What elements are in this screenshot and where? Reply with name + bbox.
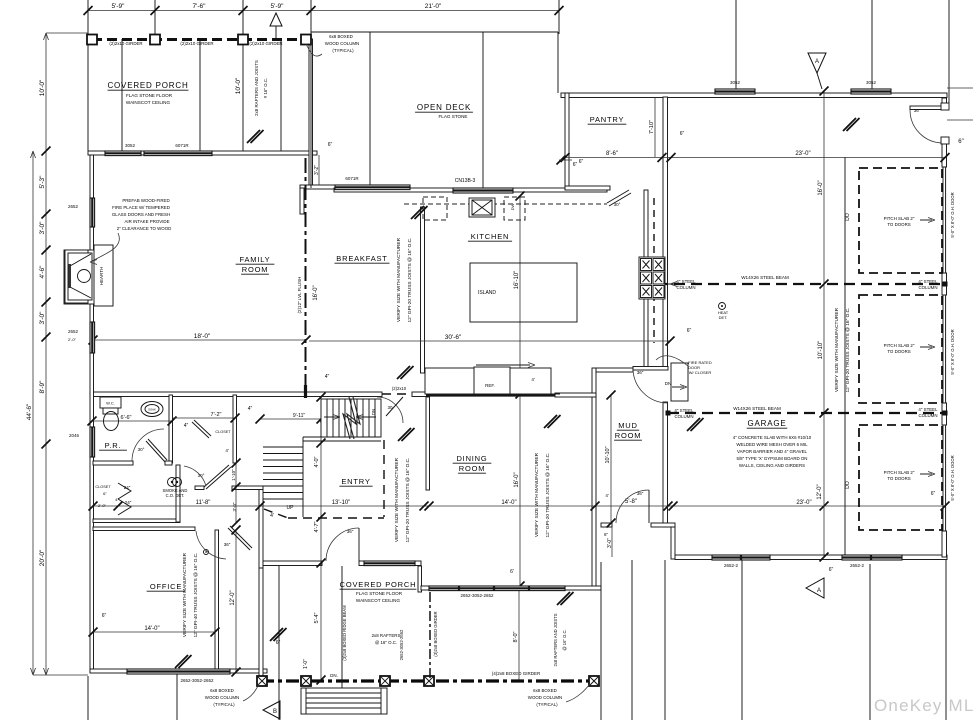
svg-text:(3)2x8 BOXED GIRDER: (3)2x8 BOXED GIRDER <box>433 611 438 656</box>
svg-text:2" CLEARANCE TO WOOD: 2" CLEARANCE TO WOOD <box>117 226 172 231</box>
svg-text:6": 6" <box>276 640 281 646</box>
svg-text:COLUMN: COLUMN <box>674 414 693 419</box>
svg-text:36": 36" <box>637 370 644 375</box>
svg-text:21'-0": 21'-0" <box>425 3 442 10</box>
svg-text:5'-9": 5'-9" <box>112 3 126 10</box>
svg-text:16'-0": 16'-0" <box>514 472 520 487</box>
svg-text:WOOD COLUMN: WOOD COLUMN <box>528 695 562 700</box>
svg-text:16'-10": 16'-10" <box>514 271 520 290</box>
svg-text:FAMILY: FAMILY <box>240 255 271 264</box>
svg-text:4': 4' <box>225 448 229 453</box>
svg-text:6': 6' <box>510 569 514 575</box>
svg-text:2x8 RAFTERS AND JOISTS: 2x8 RAFTERS AND JOISTS <box>553 613 558 666</box>
svg-text:4" STEEL: 4" STEEL <box>676 279 696 284</box>
svg-text:W.C.: W.C. <box>106 401 115 406</box>
svg-text:CN13B-3: CN13B-3 <box>455 178 476 184</box>
svg-text:6x8 BOXED: 6x8 BOXED <box>329 34 353 39</box>
svg-text:6": 6" <box>604 532 609 537</box>
svg-text:2652-2: 2652-2 <box>724 563 739 568</box>
svg-text:3'-0": 3'-0" <box>39 311 46 325</box>
svg-text:(TYPICAL): (TYPICAL) <box>536 702 558 707</box>
svg-text:COLUMN: COLUMN <box>676 285 695 290</box>
svg-text:DN.: DN. <box>330 673 338 678</box>
svg-text:36": 36" <box>347 529 354 534</box>
svg-text:36": 36" <box>637 491 644 496</box>
svg-text:4" STEEL: 4" STEEL <box>918 407 938 412</box>
svg-text:6'-6": 6'-6" <box>121 415 132 421</box>
svg-text:TO DOORS: TO DOORS <box>887 349 910 354</box>
svg-text:4': 4' <box>270 513 274 519</box>
svg-text:PITCH SLAB 2": PITCH SLAB 2" <box>884 216 915 221</box>
svg-text:ROOM: ROOM <box>242 265 269 274</box>
svg-text:3052: 3052 <box>730 80 741 85</box>
svg-text:TO DOORS: TO DOORS <box>887 222 910 227</box>
svg-text:(TYPICAL): (TYPICAL) <box>332 48 354 53</box>
svg-text:16'-0": 16'-0" <box>313 285 319 300</box>
svg-text:2'-0": 2'-0" <box>98 503 107 508</box>
svg-text:(2)2x10 GIRDER: (2)2x10 GIRDER <box>249 41 282 46</box>
svg-text:WOOD COLUMN: WOOD COLUMN <box>205 695 239 700</box>
svg-text:(2)2x10: (2)2x10 <box>392 386 407 391</box>
svg-text:2652-2: 2652-2 <box>850 563 865 568</box>
svg-text:30°: 30° <box>614 202 621 207</box>
svg-text:24": 24" <box>125 500 132 505</box>
svg-text:3'-0": 3'-0" <box>232 502 237 511</box>
svg-text:FLAG STONE FLOOR: FLAG STONE FLOOR <box>126 93 173 98</box>
svg-text:2'-0": 2'-0" <box>68 337 77 342</box>
svg-text:FIRE PLACE W/ TEMPERED: FIRE PLACE W/ TEMPERED <box>112 205 170 210</box>
svg-text:4" STEEL: 4" STEEL <box>918 279 938 284</box>
svg-text:PANTRY: PANTRY <box>590 115 625 124</box>
svg-text:DN: DN <box>665 381 672 386</box>
svg-text:5'-0" X 8'-0" O.H. DOOR: 5'-0" X 8'-0" O.H. DOOR <box>950 329 955 374</box>
svg-text:OFFICE: OFFICE <box>150 582 182 591</box>
svg-text:COLUMN: COLUMN <box>918 285 937 290</box>
svg-text:7'-6": 7'-6" <box>193 3 207 10</box>
svg-text:PITCH SLAB 2": PITCH SLAB 2" <box>884 470 915 475</box>
svg-text:2652-3052-2652: 2652-3052-2652 <box>399 629 404 660</box>
svg-text:(4)2x8 BOXED GIRDER: (4)2x8 BOXED GIRDER <box>492 671 541 676</box>
svg-text:4": 4" <box>325 374 330 380</box>
svg-text:11'-8": 11'-8" <box>196 500 211 506</box>
svg-text:BREAKFAST: BREAKFAST <box>336 254 387 263</box>
svg-text:30°: 30° <box>138 447 145 452</box>
svg-text:@ 16" O.C.: @ 16" O.C. <box>562 629 567 650</box>
svg-text:7'-2": 7'-2" <box>211 412 222 418</box>
svg-text:(TYPICAL): (TYPICAL) <box>213 702 235 707</box>
svg-text:10'-10": 10'-10" <box>818 341 824 360</box>
svg-text:2652-3052-2652: 2652-3052-2652 <box>180 678 214 683</box>
svg-text:1'-10": 1'-10" <box>231 469 236 481</box>
svg-text:18'-0": 18'-0" <box>194 333 211 340</box>
svg-text:3052: 3052 <box>125 143 136 148</box>
svg-text:12'-0": 12'-0" <box>230 590 236 605</box>
svg-text:PITCH SLAB 2": PITCH SLAB 2" <box>884 343 915 348</box>
svg-text:P.R.: P.R. <box>105 441 122 450</box>
svg-text:ENTRY: ENTRY <box>341 477 370 486</box>
svg-text:5'-4": 5'-4" <box>314 612 320 623</box>
svg-text:6": 6" <box>687 328 692 334</box>
svg-text:6071R: 6071R <box>175 143 189 148</box>
svg-text:WAINSCOT CEILING: WAINSCOT CEILING <box>356 598 401 603</box>
svg-text:DN: DN <box>371 409 376 416</box>
svg-text:(3)2x8 BOXED RIDGE BEAM: (3)2x8 BOXED RIDGE BEAM <box>342 605 347 661</box>
svg-text:10'-0": 10'-0" <box>235 77 242 94</box>
svg-text:36": 36" <box>914 108 921 113</box>
svg-text:A: A <box>815 59 819 65</box>
svg-text:WOOD COLUMN: WOOD COLUMN <box>325 41 359 46</box>
svg-text:FLAG STONE FLOOR: FLAG STONE FLOOR <box>356 591 403 596</box>
svg-text:4'-7": 4'-7" <box>314 521 320 532</box>
svg-text:2046: 2046 <box>69 433 80 438</box>
svg-text:VERIFY SIZE WITH MANUFACTURER: VERIFY SIZE WITH MANUFACTURER <box>834 307 840 392</box>
svg-text:30'-6": 30'-6" <box>445 334 462 341</box>
svg-text:GLASS DOORS AND FRESH: GLASS DOORS AND FRESH <box>112 212 170 217</box>
svg-text:VAPOR BARRIER AND 4" GRAVEL: VAPOR BARRIER AND 4" GRAVEL <box>737 449 808 454</box>
svg-text:9'-11": 9'-11" <box>293 413 306 419</box>
svg-text:ISLAND: ISLAND <box>478 290 496 296</box>
svg-text:PREFAB WOOD-FIRED: PREFAB WOOD-FIRED <box>122 198 169 203</box>
svg-text:2x8 RAFTERS AND JOISTS: 2x8 RAFTERS AND JOISTS <box>254 60 259 116</box>
svg-text:4': 4' <box>605 493 609 498</box>
svg-text:WAINSCOT CEILING: WAINSCOT CEILING <box>126 100 171 105</box>
svg-text:6071R: 6071R <box>345 176 359 181</box>
svg-text:6": 6" <box>103 491 107 496</box>
svg-text:4": 4" <box>248 406 253 412</box>
svg-text:DINING: DINING <box>456 454 487 463</box>
svg-text:ROOM: ROOM <box>615 431 642 440</box>
svg-text:4" CONCRETE SLAB WITH 6X6 #10/: 4" CONCRETE SLAB WITH 6X6 #10/10 <box>733 435 812 440</box>
svg-text:5'-0" X 8'-0" O.H. DOOR: 5'-0" X 8'-0" O.H. DOOR <box>950 455 955 500</box>
svg-text:COVERED PORCH: COVERED PORCH <box>107 81 188 90</box>
svg-text:DET.: DET. <box>719 315 728 320</box>
svg-text:10'-10": 10'-10" <box>605 446 611 463</box>
svg-text:GARAGE: GARAGE <box>747 419 786 428</box>
svg-text:8'-6": 8'-6" <box>606 151 618 157</box>
svg-text:6": 6" <box>573 162 578 168</box>
svg-text:@ 16" O.C.: @ 16" O.C. <box>375 640 397 645</box>
svg-text:2652-3052-2652: 2652-3052-2652 <box>460 593 494 598</box>
svg-text:6": 6" <box>931 491 936 497</box>
svg-text:8'-9": 8'-9" <box>39 380 46 394</box>
svg-text:24": 24" <box>124 485 131 490</box>
svg-text:3'-2": 3'-2" <box>314 165 320 175</box>
svg-text:OneKey MLS: OneKey MLS <box>874 696 973 715</box>
svg-text:6": 6" <box>680 131 685 137</box>
svg-text:FLAG STONE: FLAG STONE <box>438 114 467 119</box>
svg-text:6x8 BOXED: 6x8 BOXED <box>533 688 557 693</box>
svg-text:6x8 BOXED: 6x8 BOXED <box>210 688 234 693</box>
svg-text:10'-0": 10'-0" <box>39 79 46 96</box>
svg-text:2x8 RAFTERS: 2x8 RAFTERS <box>372 633 401 638</box>
svg-text:SOAK: SOAK <box>148 408 156 412</box>
svg-text:ROOM: ROOM <box>459 464 486 473</box>
svg-text:5'-8": 5'-8" <box>625 499 637 505</box>
svg-text:23'-0": 23'-0" <box>796 500 811 506</box>
svg-text:# 16" O.C.: # 16" O.C. <box>263 78 268 98</box>
svg-text:OPEN DECK: OPEN DECK <box>417 103 471 112</box>
svg-text:HEARTH: HEARTH <box>99 267 104 285</box>
svg-text:44'-6": 44'-6" <box>26 403 33 420</box>
svg-text:VERIFY SIZE WITH MANUFACTURER: VERIFY SIZE WITH MANUFACTURER <box>534 452 540 537</box>
svg-text:VERIFY SIZE WITH MANUFACTURER: VERIFY SIZE WITH MANUFACTURER <box>396 237 402 322</box>
svg-text:4': 4' <box>531 377 535 382</box>
svg-text:A: A <box>817 588 821 594</box>
svg-text:5'-9": 5'-9" <box>271 3 285 10</box>
svg-text:12" GPI-20 TRUSS JOISTS @ 16": 12" GPI-20 TRUSS JOISTS @ 16" O.C. <box>407 238 413 323</box>
svg-text:3'-0": 3'-0" <box>607 538 613 548</box>
svg-text:6": 6" <box>579 159 584 165</box>
svg-text:B: B <box>273 709 277 715</box>
svg-text:3'-0": 3'-0" <box>39 221 46 235</box>
svg-text:14'-0": 14'-0" <box>501 500 516 506</box>
svg-text:W14X26 STEEL BEAM: W14X26 STEEL BEAM <box>741 275 789 280</box>
svg-text:UP: UP <box>287 505 295 511</box>
svg-text:6": 6" <box>102 613 107 619</box>
svg-text:12" GPI-40 TRUSS JOISTS @ 16": 12" GPI-40 TRUSS JOISTS @ 16" O.C. <box>193 553 199 638</box>
svg-text:DW: DW <box>510 203 515 210</box>
svg-text:(2)2x10 GIRDER: (2)2x10 GIRDER <box>180 41 213 46</box>
svg-text:6": 6" <box>328 142 333 148</box>
svg-text:7'-10": 7'-10" <box>649 120 655 134</box>
svg-text:CLOSET: CLOSET <box>215 430 231 434</box>
svg-text:REF.: REF. <box>485 383 495 388</box>
svg-text:4'-6": 4'-6" <box>39 265 46 279</box>
svg-text:16'-0": 16'-0" <box>818 180 824 195</box>
svg-text:23'-0": 23'-0" <box>795 151 810 157</box>
svg-text:(2)2x10 GIRDER: (2)2x10 GIRDER <box>109 41 142 46</box>
svg-text:4'-0": 4'-0" <box>314 456 320 467</box>
svg-text:4": 4" <box>184 423 189 429</box>
svg-text:1'-0": 1'-0" <box>303 659 309 669</box>
svg-text:20'-0": 20'-0" <box>39 549 46 566</box>
svg-text:12" GPI-20 TRUSS JOISTS @ 16": 12" GPI-20 TRUSS JOISTS @ 16" O.C. <box>405 458 411 543</box>
svg-text:AIR INTAKE PROVIDE: AIR INTAKE PROVIDE <box>124 219 169 224</box>
svg-text:COLUMN: COLUMN <box>918 413 937 418</box>
svg-text:14'-0": 14'-0" <box>144 626 159 632</box>
svg-text:KITCHEN: KITCHEN <box>471 232 510 241</box>
svg-text:5'-3": 5'-3" <box>39 175 46 189</box>
svg-text:5/8" TYPE 'X' GYPSUM BOARD ON: 5/8" TYPE 'X' GYPSUM BOARD ON <box>737 456 808 461</box>
svg-text:8'-0": 8'-0" <box>513 631 519 642</box>
svg-text:WALLS, CEILING AND GIRDERS: WALLS, CEILING AND GIRDERS <box>739 463 805 468</box>
svg-text:6": 6" <box>829 567 834 573</box>
svg-text:4" STEEL: 4" STEEL <box>674 408 694 413</box>
svg-text:VERIFY SIZE WITH MANUFACTURER: VERIFY SIZE WITH MANUFACTURER <box>394 457 400 542</box>
svg-text:DO: DO <box>845 481 851 489</box>
svg-text:36": 36" <box>224 542 231 547</box>
svg-text:2652: 2652 <box>68 329 79 334</box>
svg-text:TO DOORS: TO DOORS <box>887 476 910 481</box>
svg-text:COVERED PORCH: COVERED PORCH <box>340 580 417 589</box>
svg-text:DO: DO <box>845 213 851 221</box>
svg-text:6": 6" <box>958 139 963 145</box>
svg-text:30: 30 <box>387 405 393 410</box>
svg-text:12" GPI-20 TRUSS JOISTS @ 16": 12" GPI-20 TRUSS JOISTS @ 16" O.C. <box>845 308 851 393</box>
svg-text:5'-0" X 8'-0" O.H. DOOR: 5'-0" X 8'-0" O.H. DOOR <box>950 192 955 237</box>
svg-text:CLOSET: CLOSET <box>95 485 111 489</box>
svg-text:MUD: MUD <box>618 421 637 430</box>
svg-text:VERIFY SIZE WITH MANUFACTURER: VERIFY SIZE WITH MANUFACTURER <box>182 552 188 637</box>
svg-text:WELDED WIRE MESH OVER 6 MIL: WELDED WIRE MESH OVER 6 MIL <box>736 442 808 447</box>
svg-text:13'-10": 13'-10" <box>332 500 351 506</box>
svg-text:2652: 2652 <box>68 204 79 209</box>
svg-text:C.O. DET.: C.O. DET. <box>166 493 185 498</box>
svg-text:W14X26 STEEL BEAM: W14X26 STEEL BEAM <box>733 406 781 411</box>
svg-text:(2)12" LVL FLUSH: (2)12" LVL FLUSH <box>297 277 302 314</box>
svg-text:12" GPI-20 TRUSS JOISTS @ 16": 12" GPI-20 TRUSS JOISTS @ 16" O.C. <box>545 453 551 538</box>
svg-text:4": 4" <box>115 497 119 502</box>
svg-text:3052: 3052 <box>866 80 877 85</box>
svg-text:W/ CLOSER: W/ CLOSER <box>689 370 712 375</box>
svg-text:12'-0": 12'-0" <box>817 484 823 499</box>
